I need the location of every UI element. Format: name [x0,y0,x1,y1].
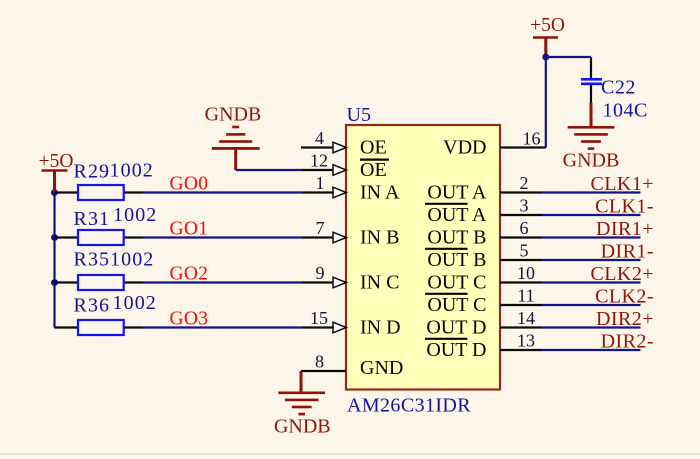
svg-text:R29: R29 [74,160,111,182]
svg-text:CLK2+: CLK2+ [590,263,654,285]
svg-text:R35: R35 [74,248,111,270]
svg-text:14: 14 [517,308,535,328]
svg-text:OUT D: OUT D [426,317,486,339]
svg-text:GO0: GO0 [170,174,209,195]
svg-text:104C: 104C [603,100,648,122]
svg-text:13: 13 [517,331,535,351]
svg-text:IN A: IN A [360,182,400,204]
svg-text:1002: 1002 [110,160,154,182]
svg-text:4: 4 [315,128,324,148]
svg-text:OUT D: OUT D [426,339,486,361]
svg-text:OE: OE [360,159,387,181]
svg-text:DIR1-: DIR1- [601,241,654,263]
svg-text:R31: R31 [74,208,111,230]
svg-text:1: 1 [316,173,325,193]
svg-text:6: 6 [520,218,529,238]
svg-text:GO1: GO1 [170,219,209,240]
svg-text:VDD: VDD [443,137,486,159]
svg-text:DIR2-: DIR2- [601,331,654,353]
svg-text:DIR2+: DIR2+ [596,308,654,330]
svg-text:8: 8 [315,352,324,372]
svg-text:3: 3 [520,196,529,216]
svg-text:U5: U5 [347,104,371,126]
svg-text:OUT A: OUT A [427,182,487,204]
svg-text:10: 10 [517,263,535,283]
svg-text:IN D: IN D [360,317,401,339]
svg-text:OUT B: OUT B [427,227,486,249]
svg-text:OUT C: OUT C [427,294,486,316]
svg-text:OE: OE [360,137,387,159]
svg-text:CLK2-: CLK2- [595,286,654,308]
svg-text:1002: 1002 [110,248,154,270]
svg-text:GNDB: GNDB [563,150,620,172]
svg-text:2: 2 [520,173,529,193]
svg-text:IN B: IN B [360,227,399,249]
svg-text:OUT C: OUT C [427,272,486,294]
svg-text:1002: 1002 [113,292,157,314]
svg-text:DIR1+: DIR1+ [596,218,654,240]
svg-text:CLK1-: CLK1- [595,196,654,218]
svg-text:GND: GND [360,357,403,379]
svg-text:5: 5 [520,241,529,261]
svg-text:12: 12 [310,151,328,171]
svg-text:GNDB: GNDB [205,103,262,125]
svg-text:OUT B: OUT B [427,249,486,271]
svg-text:1002: 1002 [113,204,157,226]
svg-text:OUT A: OUT A [427,204,487,226]
svg-text:7: 7 [316,218,325,238]
svg-text:AM26C31IDR: AM26C31IDR [347,395,471,417]
svg-text:GO2: GO2 [170,264,209,285]
svg-text:GNDB: GNDB [274,415,331,437]
svg-text:R36: R36 [74,295,111,317]
svg-text:+5O: +5O [530,15,565,36]
svg-text:CLK1+: CLK1+ [590,173,654,195]
svg-text:9: 9 [316,263,325,283]
svg-text:+5O: +5O [39,151,74,172]
svg-text:15: 15 [310,308,328,328]
svg-text:GO3: GO3 [170,309,209,330]
svg-text:IN C: IN C [360,272,399,294]
svg-text:11: 11 [517,286,534,306]
svg-text:C22: C22 [601,77,636,99]
svg-text:16: 16 [523,129,541,149]
